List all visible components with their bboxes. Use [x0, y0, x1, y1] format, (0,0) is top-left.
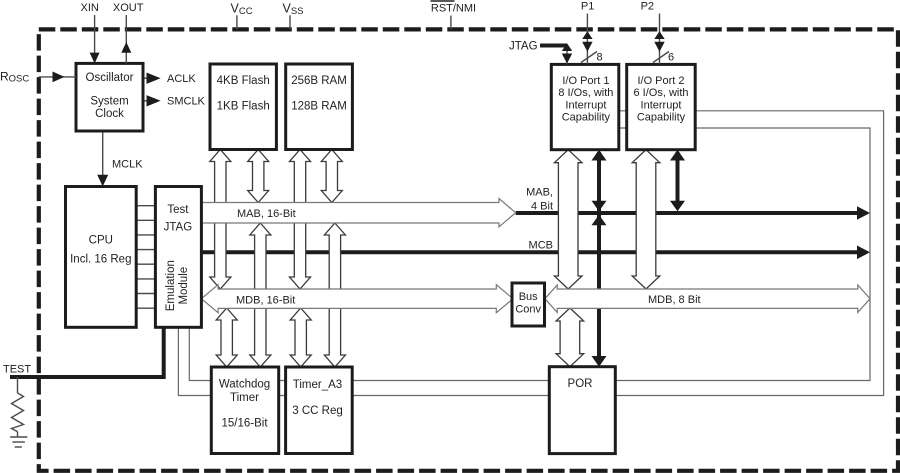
svg-text:Module: Module [178, 267, 190, 305]
pin ROSC [0, 70, 76, 85]
svg-text:128B RAM: 128B RAM [291, 100, 347, 112]
svg-text:Clock: Clock [95, 108, 124, 120]
svg-text:Interrupt: Interrupt [641, 99, 682, 111]
svg-text:8: 8 [597, 52, 603, 64]
svg-text:XOUT: XOUT [113, 2, 144, 14]
hollow arrow Port1 to MDB8 [554, 150, 582, 289]
I/O Port 1 box [551, 64, 619, 149]
svg-text:1KB Flash: 1KB Flash [217, 100, 270, 112]
svg-text:Timer_A3: Timer_A3 [293, 379, 342, 391]
svg-text:JTAG: JTAG [509, 41, 538, 53]
hollow arrow Watchdog to MAB (long) [250, 223, 271, 367]
svg-text:Bus: Bus [519, 291, 538, 303]
CPU box [66, 187, 137, 328]
svg-text:MAB, 16-Bit: MAB, 16-Bit [237, 208, 296, 220]
svg-text:MCB: MCB [529, 240, 553, 252]
bus MCB thick line [201, 250, 861, 254]
hollow arrow Timer to MAB (long) [324, 223, 345, 367]
bus band MDB 8-bit [545, 285, 870, 312]
svg-text:Capability: Capability [562, 112, 611, 124]
svg-text:3 CC Reg: 3 CC Reg [292, 405, 343, 417]
hollow arrow Watchdog to MDB (short) [216, 308, 237, 367]
arrowhead MCB right [857, 246, 870, 260]
svg-text:6: 6 [668, 52, 674, 64]
arrowhead down at POR top [592, 356, 607, 367]
wire control loop inner (Port1 right - Port2 - right side - Emulation bottom) [189, 128, 870, 381]
hollow arrow RAM to MDB (long) [290, 150, 311, 290]
pin XIN [81, 2, 100, 63]
wire SMCLK out of oscillator [143, 100, 148, 102]
arrowhead down at MAB4 line [670, 201, 685, 211]
bus band MAB 16-bit [201, 199, 515, 227]
svg-text:Conv: Conv [515, 304, 541, 316]
hollow arrow Port2 to MDB8 [632, 150, 660, 289]
svg-text:P1: P1 [581, 1, 594, 13]
hollow arrow MDB8 to POR [556, 308, 584, 367]
svg-text:P2: P2 [641, 1, 654, 13]
hollow arrow RAM to MAB (short) [321, 150, 342, 203]
svg-text:XIN: XIN [81, 2, 99, 14]
arrowhead up at Port2 bottom [670, 150, 685, 161]
svg-text:Oscillator: Oscillator [86, 72, 134, 84]
svg-text:Incl. 16 Reg: Incl. 16 Reg [70, 254, 131, 266]
Test/JTAG + Emulation Module box [155, 187, 201, 328]
resistor to ground on TEST [12, 377, 24, 437]
svg-text:MDB, 8 Bit: MDB, 8 Bit [648, 294, 701, 306]
wire port1 thick vertical (I/O Port 1 to POR) [597, 152, 601, 364]
svg-text:Test: Test [167, 204, 189, 216]
pin RST/NMI with overline on RST [431, 1, 477, 29]
Watchdog Timer box [211, 367, 278, 454]
bus MAB 4-bit thick line [516, 211, 861, 215]
pin XOUT [113, 2, 144, 63]
svg-text:Watchdog: Watchdog [219, 379, 270, 391]
pin VSS [283, 2, 304, 30]
svg-text:POR: POR [568, 378, 593, 390]
svg-text:4KB Flash: 4KB Flash [217, 75, 270, 87]
svg-text:CPU: CPU [89, 235, 113, 247]
svg-text:JTAG: JTAG [164, 221, 193, 233]
arrowhead up at Port1 bottom [592, 150, 607, 161]
svg-text:4 Bit: 4 Bit [531, 201, 553, 213]
pin TEST [3, 364, 31, 376]
svg-text:ACLK: ACLK [167, 73, 196, 85]
svg-text:System: System [90, 95, 128, 107]
svg-text:8 I/Os, with: 8 I/Os, with [558, 87, 613, 99]
svg-text:RST/NMI: RST/NMI [431, 2, 476, 14]
hollow arrow Flash to MDB (long) [210, 150, 231, 290]
svg-text:I/O Port 2: I/O Port 2 [637, 75, 684, 87]
arrowhead MAB4 right [857, 206, 870, 220]
svg-text:SMCLK: SMCLK [167, 96, 206, 108]
pin JTAG [509, 41, 572, 65]
wire ACLK out of oscillator [143, 77, 148, 79]
oscillator / system clock box [76, 63, 143, 131]
hollow arrow Flash to MAB (short) [248, 150, 269, 203]
svg-text:TEST: TEST [3, 364, 31, 376]
ladder wires between CPU and Test/JTAG [136, 206, 155, 309]
svg-text:MDB, 16-Bit: MDB, 16-Bit [236, 294, 295, 306]
Bus Conv box [512, 283, 545, 326]
svg-text:Timer: Timer [230, 392, 259, 404]
pin P2 [641, 1, 675, 65]
hollow arrow Timer to MDB (short) [290, 308, 311, 367]
ground symbol [10, 437, 27, 447]
Timer_A3 box [286, 367, 353, 454]
pin VCC [231, 2, 253, 30]
wire TEST thick line to Test/JTAG box [10, 327, 164, 377]
svg-text:MCLK: MCLK [112, 159, 143, 171]
svg-text:Interrupt: Interrupt [565, 99, 606, 111]
bus band MDB 16-bit [201, 285, 513, 313]
RAM box [286, 64, 353, 150]
svg-text:15/16-Bit: 15/16-Bit [221, 418, 268, 430]
svg-text:256B RAM: 256B RAM [291, 75, 347, 87]
svg-text:6 I/Os, with: 6 I/Os, with [633, 87, 688, 99]
bowtie arrowheads at MAB4 junction [592, 201, 607, 211]
flash memory box [210, 64, 276, 150]
wire MCLK (oscillator to CPU) [102, 131, 104, 180]
wire port2 thick vertical (I/O Port 2 to MAB4) [676, 152, 680, 208]
I/O Port 2 box [627, 64, 696, 149]
POR box [549, 367, 615, 454]
svg-text:Capability: Capability [637, 112, 686, 124]
svg-text:I/O Port 1: I/O Port 1 [562, 75, 609, 87]
svg-text:MAB,: MAB, [526, 187, 553, 199]
wire control loop outer (Port1 right - around right/bottom - Emulation bottom) [178, 111, 883, 396]
svg-text:Emulation: Emulation [165, 260, 177, 311]
pin P1 [581, 1, 603, 65]
